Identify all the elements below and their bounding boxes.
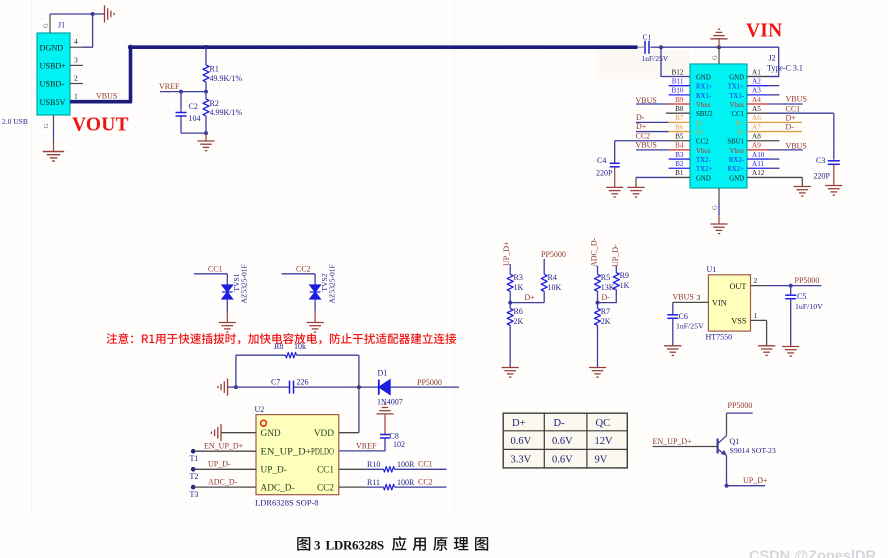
svg-text:A3: A3 xyxy=(752,87,761,95)
junction PP5000 node xyxy=(789,284,793,288)
svg-text:R10: R10 xyxy=(367,460,380,469)
pin B4 of J2 xyxy=(636,149,669,151)
junction at top wire xyxy=(91,12,95,16)
svg-text:100R: 100R xyxy=(397,478,415,487)
ground (below C4) xyxy=(606,187,623,197)
svg-text:USB5V: USB5V xyxy=(40,98,66,107)
svg-text:A10: A10 xyxy=(752,151,765,159)
pin B10 of J2 xyxy=(669,94,690,96)
wire PP5000 to R4 xyxy=(543,259,545,274)
svg-text:GND: GND xyxy=(696,74,711,81)
ground (top right of J1) xyxy=(105,5,115,22)
svg-text:1uF/10V: 1uF/10V xyxy=(795,302,823,311)
wire C6 to ground xyxy=(672,318,674,346)
ground (left of U2) xyxy=(211,424,221,441)
wire R2 to ground node xyxy=(205,116,207,133)
TVS diode TVS1 xyxy=(222,285,233,299)
svg-text:2: 2 xyxy=(74,74,78,83)
svg-text:TX1+: TX1+ xyxy=(728,84,744,91)
wire C8 to VREF xyxy=(339,438,385,451)
svg-text:RX2-: RX2- xyxy=(729,157,745,164)
svg-text:CC1: CC1 xyxy=(418,460,433,469)
svg-text:HT7550: HT7550 xyxy=(706,332,733,341)
svg-text:R7: R7 xyxy=(601,307,610,316)
svg-text:UP_D-: UP_D- xyxy=(208,460,231,469)
svg-text:VREF: VREF xyxy=(356,441,377,450)
svg-text:OUT: OUT xyxy=(729,282,746,291)
svg-text:EN_UP_D+: EN_UP_D+ xyxy=(261,447,312,457)
pin B5 of J2 xyxy=(615,140,669,142)
svg-text:G: G xyxy=(43,124,50,129)
svg-text:S9014 SOT-23: S9014 SOT-23 xyxy=(730,446,776,455)
svg-text:TX1-: TX1- xyxy=(729,93,744,100)
resistor R10 xyxy=(339,468,366,470)
svg-text:R4: R4 xyxy=(548,273,557,282)
connector J2 Type-C xyxy=(690,64,747,188)
pin A6 of J2 xyxy=(747,121,802,123)
wire R3 to node D+ xyxy=(509,291,511,308)
svg-text:ADC_D-: ADC_D- xyxy=(208,478,238,487)
svg-text:0.6V: 0.6V xyxy=(552,436,573,447)
svg-text:CC2: CC2 xyxy=(636,131,651,140)
pin A11 of J2 xyxy=(747,167,769,169)
svg-text:D1: D1 xyxy=(378,368,388,377)
svg-text:1uF/25V: 1uF/25V xyxy=(642,54,669,63)
svg-text:R1: R1 xyxy=(210,65,219,74)
svg-text:UP_D+: UP_D+ xyxy=(743,476,768,485)
ground (below J1) xyxy=(43,152,64,162)
svg-text:1N4007: 1N4007 xyxy=(377,398,403,407)
svg-text:CC1: CC1 xyxy=(732,111,744,118)
svg-text:USBD-: USBD- xyxy=(40,80,65,89)
svg-text:PP5000: PP5000 xyxy=(541,250,566,259)
pin A10 of J2 xyxy=(747,158,769,160)
svg-text:D-: D- xyxy=(786,123,795,132)
svg-text:9V: 9V xyxy=(595,454,608,465)
wire CC2 down to C4 xyxy=(614,141,616,164)
table D+/D-/QC xyxy=(503,413,627,468)
test point T2 xyxy=(191,467,196,472)
svg-text:D+: D+ xyxy=(512,418,526,429)
capacitor C1 xyxy=(638,46,645,48)
resistor R4 xyxy=(541,274,547,291)
wire TVS1 to ground xyxy=(226,299,228,311)
junction node D+ xyxy=(508,301,512,305)
wire R9 to node D- xyxy=(598,290,617,303)
svg-text:A7: A7 xyxy=(752,123,761,131)
svg-text:G: G xyxy=(712,55,719,60)
wire ADC_D- to R5 xyxy=(597,266,599,275)
svg-text:10k: 10k xyxy=(294,342,306,351)
svg-text:PP5000: PP5000 xyxy=(728,401,753,410)
wire C1 to junction xyxy=(651,46,662,48)
ground (below J2) xyxy=(710,224,727,234)
svg-text:J2: J2 xyxy=(769,54,776,63)
wire emitter down xyxy=(726,455,728,485)
svg-text:3.3V: 3.3V xyxy=(511,454,532,465)
svg-text:2: 2 xyxy=(754,276,758,285)
svg-text:RX2+: RX2+ xyxy=(727,166,744,173)
svg-text:GND: GND xyxy=(729,175,744,182)
ground (above C8) xyxy=(376,404,393,414)
svg-text:C3: C3 xyxy=(816,156,825,165)
pin A12 of J2 xyxy=(747,176,802,178)
svg-text:A2: A2 xyxy=(752,77,761,85)
pin 2 USBD- stub xyxy=(70,83,83,85)
wire R7 to ground xyxy=(597,325,599,367)
svg-text:0.6V: 0.6V xyxy=(511,436,532,447)
svg-text:CC2: CC2 xyxy=(418,477,433,486)
svg-text:U1: U1 xyxy=(707,265,717,274)
wire CC to TVS1 xyxy=(194,273,228,275)
pin A7 of J2 xyxy=(747,131,802,133)
svg-text:1uF/25V: 1uF/25V xyxy=(676,321,704,330)
wire D1 to PP5000 xyxy=(390,386,459,388)
svg-text:SBU2: SBU2 xyxy=(696,111,713,118)
svg-text:D+: D+ xyxy=(786,113,797,122)
ground (left of C7) xyxy=(228,386,236,388)
resistor R9 xyxy=(613,273,619,290)
resistor R6 xyxy=(507,308,513,325)
svg-text:A8: A8 xyxy=(752,133,761,141)
svg-text:T1: T1 xyxy=(190,454,199,463)
svg-text:CC1: CC1 xyxy=(786,104,801,113)
svg-text:T2: T2 xyxy=(190,472,199,481)
svg-text:A5: A5 xyxy=(752,105,761,113)
svg-text:G: G xyxy=(43,23,50,28)
svg-text:A12: A12 xyxy=(752,169,765,177)
svg-text:VIN: VIN xyxy=(746,21,782,42)
svg-text:VBUS: VBUS xyxy=(673,293,694,302)
svg-text:2K: 2K xyxy=(601,317,611,326)
test point T1 xyxy=(191,449,196,454)
wire OUT to PP5000 xyxy=(767,285,822,287)
resistor R7 xyxy=(595,308,601,325)
caption figure 3 (Chinese) xyxy=(297,537,310,551)
wire C2 to bottom xyxy=(180,116,182,133)
junction VDD node xyxy=(357,385,361,389)
wire junction to ground xyxy=(93,13,104,15)
svg-text:RX1+: RX1+ xyxy=(696,84,713,91)
svg-text:Type-C 3.1: Type-C 3.1 xyxy=(767,64,803,73)
svg-text:CC2: CC2 xyxy=(696,139,709,146)
svg-text:ADC_D-: ADC_D- xyxy=(261,483,295,493)
svg-text:B8: B8 xyxy=(675,105,684,113)
op-amp U2 LDR6328S xyxy=(256,415,339,495)
svg-text:3: 3 xyxy=(314,538,321,553)
junction node D- xyxy=(596,301,600,305)
svg-text:QC: QC xyxy=(596,418,611,429)
ground (below R6) xyxy=(502,368,519,378)
svg-text:B6: B6 xyxy=(675,123,684,131)
wire VDD pin xyxy=(339,432,359,434)
svg-text:VOUT: VOUT xyxy=(72,115,129,136)
wire R5 to node D- xyxy=(597,291,599,308)
note text R1 usage (Chinese) xyxy=(107,333,457,344)
svg-text:Vbus: Vbus xyxy=(696,102,711,109)
svg-text:A4: A4 xyxy=(752,96,761,104)
ground (below B1) xyxy=(627,187,644,197)
svg-text:USBD+: USBD+ xyxy=(40,62,67,71)
ground (below TVS1) xyxy=(219,323,236,333)
svg-text:VBUS: VBUS xyxy=(96,91,117,100)
pin A2 of J2 xyxy=(747,85,769,87)
capacitor C4 xyxy=(610,162,620,164)
wire C7 to VDD node xyxy=(294,386,359,388)
svg-text:R2: R2 xyxy=(210,99,219,108)
resistor R2 xyxy=(203,99,209,116)
junction R8/C7 node xyxy=(234,385,238,389)
svg-text:D+: D+ xyxy=(636,122,647,131)
capacitor C8 xyxy=(380,434,390,436)
pin B1 of J2 xyxy=(636,176,669,178)
pin B9 of J2 xyxy=(636,103,669,105)
wire R8 right down to VDD xyxy=(358,355,360,433)
wire VREF xyxy=(160,91,206,93)
TVS diode TVS2 xyxy=(310,285,321,299)
svg-text:TX2-: TX2- xyxy=(696,157,711,164)
svg-text:VSS: VSS xyxy=(731,317,747,326)
svg-text:UP_D-: UP_D- xyxy=(611,244,620,267)
svg-text:Q1: Q1 xyxy=(730,437,740,446)
ground (below C6) xyxy=(664,346,681,356)
svg-text:D+: D+ xyxy=(525,293,536,302)
wire UP_D- to R9 xyxy=(615,266,617,273)
svg-text:R9: R9 xyxy=(620,271,629,280)
wire TVS2 to ground xyxy=(314,299,316,311)
capacitor C7 xyxy=(236,386,290,388)
pin G top stub of J1 xyxy=(49,14,51,33)
svg-text:CC1: CC1 xyxy=(208,264,223,273)
svg-text:PP5000: PP5000 xyxy=(795,276,820,285)
svg-text:C2: C2 xyxy=(189,102,198,111)
svg-text:100R: 100R xyxy=(397,460,415,469)
svg-text:D+: D+ xyxy=(696,129,705,136)
pin A8 of J2 xyxy=(747,140,779,142)
pin A3 of J2 xyxy=(747,94,769,96)
svg-text:J1: J1 xyxy=(58,21,65,30)
svg-text:VBUS: VBUS xyxy=(636,96,657,105)
pin A9 of J2 xyxy=(747,149,769,151)
transistor Q1 S9014 xyxy=(718,436,727,456)
svg-text:CC2: CC2 xyxy=(296,264,311,273)
svg-text:2K: 2K xyxy=(514,317,524,326)
ground (below C5) xyxy=(782,347,799,357)
svg-text:0.6V: 0.6V xyxy=(552,454,573,465)
svg-text:CC1: CC1 xyxy=(317,465,334,475)
wire node D+ to R4 xyxy=(510,302,544,304)
pin B6 of J2 xyxy=(636,131,669,133)
svg-text:1: 1 xyxy=(74,92,78,101)
wire emitter to UP_D+ xyxy=(727,485,766,487)
pin G top stub of J2 xyxy=(718,47,720,64)
svg-text:GND: GND xyxy=(261,429,281,439)
marker pin1 circle U2 xyxy=(261,420,267,426)
svg-text:GND: GND xyxy=(696,175,711,182)
capacitor C2 xyxy=(176,112,187,114)
svg-text:102: 102 xyxy=(393,440,405,449)
wire C4 to ground xyxy=(614,167,616,188)
svg-text:GND: GND xyxy=(729,74,744,81)
svg-text:B9: B9 xyxy=(675,96,684,104)
svg-text:EN_UP_D+: EN_UP_D+ xyxy=(653,437,693,446)
svg-text:VBUS: VBUS xyxy=(786,94,807,103)
svg-text:D-: D- xyxy=(737,129,745,136)
wire CC1 from A5 to C3 xyxy=(833,113,835,159)
pin A1 of J2 xyxy=(747,76,769,78)
wire UP_D+ to R3 xyxy=(509,264,511,274)
pin G bottom stub of J1 xyxy=(53,115,55,128)
svg-text:Vbus: Vbus xyxy=(730,148,745,155)
pin A5 of J2 xyxy=(747,112,769,114)
svg-text:PDLDO: PDLDO xyxy=(311,447,334,457)
svg-text:220P: 220P xyxy=(814,171,831,180)
svg-text:4: 4 xyxy=(74,37,78,46)
ground (below VSS) xyxy=(758,346,775,356)
svg-text:A9: A9 xyxy=(752,142,761,150)
svg-text:B4: B4 xyxy=(675,142,684,150)
svg-text:D-: D- xyxy=(602,293,611,302)
pin 3 USBD+ stub xyxy=(70,64,83,66)
svg-text:T3: T3 xyxy=(190,490,199,499)
svg-text:C1: C1 xyxy=(643,32,652,41)
wire CC to TVS2 xyxy=(282,273,316,275)
ground (above J2) xyxy=(710,29,727,39)
svg-text:PP5000: PP5000 xyxy=(417,378,442,387)
svg-text:49.9K/1%: 49.9K/1% xyxy=(210,74,243,83)
svg-text:1: 1 xyxy=(754,311,758,320)
svg-text:VBUS: VBUS xyxy=(786,141,807,150)
wire B1 to ground xyxy=(635,177,637,187)
svg-text:13K: 13K xyxy=(601,283,615,292)
junction bottom node xyxy=(204,131,208,135)
ground (below R2) xyxy=(197,141,214,151)
svg-text:A1: A1 xyxy=(752,68,761,76)
svg-text:B5: B5 xyxy=(675,133,684,141)
svg-text:10K: 10K xyxy=(548,283,562,292)
wire top across J2 xyxy=(661,46,779,48)
svg-text:220P: 220P xyxy=(596,169,613,178)
svg-text:B10: B10 xyxy=(672,87,684,95)
wire bus to R1 xyxy=(205,47,207,65)
svg-text:A6: A6 xyxy=(752,114,761,122)
svg-text:2.0 USB: 2.0 USB xyxy=(2,117,28,126)
svg-text:Vbus: Vbus xyxy=(730,102,745,109)
svg-text:EN_UP_D+: EN_UP_D+ xyxy=(204,441,244,450)
svg-text:AZ5325-01F: AZ5325-01F xyxy=(327,264,336,303)
svg-text:VREF: VREF xyxy=(159,82,180,91)
resistor R3 xyxy=(507,274,513,291)
svg-text:R6: R6 xyxy=(514,307,523,316)
junction C2 top xyxy=(179,90,183,94)
wire VBUS thick bus xyxy=(70,47,638,101)
pin B3 of J2 xyxy=(669,158,690,160)
svg-text:C6: C6 xyxy=(679,312,688,321)
ground (below R7) xyxy=(589,368,606,378)
svg-text:LDR6328S: LDR6328S xyxy=(326,538,384,553)
wire PP5000 to collector xyxy=(727,412,753,414)
capacitor C5 xyxy=(790,286,792,296)
pin A4 of J2 xyxy=(747,103,769,105)
pin G bottom stub of J2 xyxy=(718,188,720,203)
svg-text:C7: C7 xyxy=(271,378,280,387)
ground (below C3) xyxy=(825,186,842,196)
svg-text:3: 3 xyxy=(697,293,701,302)
capacitor C3 xyxy=(828,160,840,162)
svg-text:RX1-: RX1- xyxy=(696,93,712,100)
svg-text:UP_D+: UP_D+ xyxy=(502,241,511,266)
svg-text:DGND: DGND xyxy=(40,43,64,52)
svg-text:C5: C5 xyxy=(797,292,806,301)
wire VREF to C2 xyxy=(180,92,182,113)
svg-text:R11: R11 xyxy=(367,478,380,487)
capacitor C6 xyxy=(672,302,674,314)
svg-text:UP_D-: UP_D- xyxy=(261,465,287,475)
svg-text:B12: B12 xyxy=(672,68,684,76)
regulator U1 HT7550 xyxy=(708,275,750,331)
svg-text:B7: B7 xyxy=(675,114,684,122)
svg-text:ADC_D-: ADC_D- xyxy=(590,237,599,267)
ground (below TVS2) xyxy=(307,323,324,333)
svg-text:U2: U2 xyxy=(255,405,265,414)
pin 4 DGND stub xyxy=(70,46,83,48)
svg-text:G: G xyxy=(712,205,719,210)
svg-text:B1: B1 xyxy=(675,169,684,177)
svg-text:LDR6328S SOP-8: LDR6328S SOP-8 xyxy=(255,498,319,508)
svg-text:3: 3 xyxy=(74,55,78,64)
junction emitter node xyxy=(725,484,729,488)
pin B7 of J2 xyxy=(636,121,669,123)
svg-text:VIN: VIN xyxy=(712,299,727,308)
pin B8 of J2 xyxy=(666,112,690,114)
wire junction down to B12 xyxy=(661,47,690,76)
test point T3 xyxy=(191,485,196,490)
wire R6 to ground xyxy=(509,325,511,367)
svg-text:SBU1: SBU1 xyxy=(727,139,744,146)
svg-text:CC2: CC2 xyxy=(317,483,334,493)
wire node to ground xyxy=(205,133,207,141)
svg-text:226: 226 xyxy=(297,378,309,387)
pin B2 of J2 xyxy=(669,167,690,169)
svg-text:D-: D- xyxy=(636,113,645,122)
svg-text:CSDN @ZoneslDR: CSDN @ZoneslDR xyxy=(749,549,876,558)
svg-text:D-: D- xyxy=(554,418,566,429)
connector J1 2.0 USB xyxy=(37,33,70,115)
resistor R1 xyxy=(203,65,209,82)
svg-text:4.99K/1%: 4.99K/1% xyxy=(210,108,243,117)
svg-text:B3: B3 xyxy=(675,151,684,159)
svg-text:TX2+: TX2+ xyxy=(696,166,712,173)
wire J1 top to ground xyxy=(50,13,93,15)
svg-text:104: 104 xyxy=(189,114,201,123)
resistor R11 xyxy=(339,486,366,488)
junction bus corner xyxy=(128,45,133,50)
wire pin4 to top junction xyxy=(83,14,93,47)
wire R1 to R2 xyxy=(205,82,207,99)
resistor R5 xyxy=(595,274,601,291)
svg-text:D-: D- xyxy=(696,120,704,127)
svg-text:R8: R8 xyxy=(274,342,283,351)
svg-text:12V: 12V xyxy=(595,436,614,447)
wire C5 to ground xyxy=(790,299,792,347)
svg-text:R5: R5 xyxy=(601,273,610,282)
svg-text:D+: D+ xyxy=(735,120,744,127)
svg-text:1K: 1K xyxy=(514,283,524,292)
svg-text:A11: A11 xyxy=(752,160,765,168)
wire A12 to ground xyxy=(801,177,803,186)
junction at J2 top ground xyxy=(717,45,721,49)
wire R4 to node D+ xyxy=(543,291,545,302)
